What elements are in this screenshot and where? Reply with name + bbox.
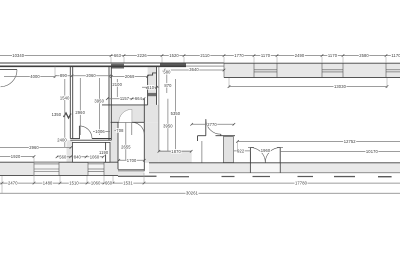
- dim 13030 line: [229, 86, 387, 88]
- svg-text:560: 560: [59, 154, 67, 159]
- svg-text:1870: 1870: [171, 149, 181, 154]
- svg-text:2490: 2490: [295, 53, 305, 58]
- svg-text:2770: 2770: [207, 122, 217, 127]
- dim text 10340: [12, 53, 25, 57]
- dim 3950 text room2: [94, 99, 105, 103]
- bottom dimension chain: [0, 182, 400, 184]
- bottom-right band bottom edge: [149, 172, 400, 174]
- top-right band bottom edge: [224, 77, 400, 79]
- shaft right wall line b: [158, 66, 160, 151]
- gray area right of shaft above band: [159, 150, 192, 163]
- dim 708: [115, 129, 119, 131]
- svg-text:10340: 10340: [12, 53, 25, 58]
- exterior step dash 1: [118, 176, 157, 177]
- dim 2960 text room2: [79, 78, 81, 135]
- double door opening in band: [251, 163, 280, 172]
- svg-text:1520: 1520: [169, 53, 179, 58]
- shaft gray column: [148, 66, 157, 105]
- dim 4000 line: [4, 76, 55, 78]
- lower room door swing sector upper: [119, 109, 132, 122]
- dark pier in shaft: [148, 93, 157, 96]
- svg-text:1060: 1060: [90, 154, 100, 159]
- dim 2960 lower: [0, 147, 71, 149]
- svg-text:12752: 12752: [344, 139, 357, 144]
- svg-text:1170: 1170: [328, 53, 338, 58]
- bottom-right band top edge: [149, 162, 400, 164]
- window glazing lines 254-277: [254, 69, 277, 71]
- vestibule door open leaf stub: [220, 134, 222, 136]
- dim text 663: [114, 53, 122, 57]
- dim 2655 text: [121, 145, 132, 149]
- double door right swing arc: [265, 148, 280, 163]
- bottom-right exterior wall band fill: [149, 163, 400, 173]
- dim 3640 line: [164, 69, 224, 71]
- exterior step dash 2: [170, 176, 189, 177]
- dim 2655 vertical line: [125, 122, 127, 160]
- wall between room2 and middle room line b: [110, 66, 112, 140]
- dim 2069 line: [111, 75, 147, 77]
- top chain tick marks: [110, 54, 388, 57]
- svg-text:2400: 2400: [57, 137, 67, 142]
- svg-text:660: 660: [105, 181, 113, 186]
- dim text 1170c: [391, 53, 400, 57]
- wall right of middle room: [143, 99, 145, 123]
- svg-text:2110: 2110: [200, 53, 210, 58]
- svg-text:3640: 3640: [189, 67, 199, 72]
- dim text 2226: [137, 53, 148, 57]
- band window divider x386: [385, 63, 387, 77]
- chimney pilaster on top wall: [111, 64, 124, 69]
- svg-text:664: 664: [135, 96, 143, 101]
- band window divider x277: [276, 63, 278, 77]
- middle room bottom wall: [102, 104, 148, 106]
- gray strip right of lower middle room: [145, 122, 159, 163]
- dim 922: [234, 150, 251, 152]
- svg-text:17780: 17780: [295, 181, 308, 186]
- svg-text:1700: 1700: [127, 158, 137, 163]
- svg-text:1170: 1170: [391, 53, 400, 58]
- svg-text:1350: 1350: [52, 112, 62, 117]
- vestibule door swing arc: [206, 119, 221, 134]
- svg-text:2580: 2580: [359, 53, 369, 58]
- vestibule wall horizontal left: [198, 135, 206, 137]
- vestibule pier fill: [223, 137, 233, 163]
- svg-text:2100: 2100: [112, 82, 122, 87]
- dim 1540 vertical: [64, 79, 66, 147]
- lower room door swing arc lower: [132, 122, 145, 135]
- dim 2060 line: [72, 75, 110, 77]
- svg-text:2060: 2060: [86, 73, 96, 78]
- exterior step dash 5: [298, 176, 314, 177]
- svg-text:1060: 1060: [91, 181, 101, 186]
- dim text 2580: [359, 53, 370, 57]
- vestibule door jamb wall: [205, 119, 207, 136]
- double door left leaf: [249, 148, 251, 173]
- dim 5350 vertical: [174, 79, 176, 151]
- double door top stub right: [277, 146, 283, 148]
- entry white rect: [73, 142, 111, 162]
- svg-text:663: 663: [114, 53, 122, 58]
- dim 1157 664 line: [107, 98, 144, 100]
- svg-text:2960: 2960: [75, 110, 85, 115]
- svg-text:2960: 2960: [29, 145, 39, 150]
- dim text 1170b: [327, 53, 338, 57]
- top chain extension lines: [111, 57, 386, 63]
- wall between room1 and room2 line a: [69, 66, 71, 138]
- svg-text:1920: 1920: [11, 154, 21, 159]
- dim 3950 vertical line room2: [98, 78, 100, 135]
- exterior step dash 4: [253, 176, 271, 177]
- lower middle room top wall: [111, 121, 145, 123]
- entrance door leaf top-left: [0, 69, 17, 71]
- top-right band top edge: [224, 62, 400, 64]
- vestibule wall vertical stub: [197, 136, 199, 141]
- svg-text:870: 870: [164, 83, 172, 88]
- room2 door leaf: [78, 126, 80, 139]
- dim 2770 vestibule: [192, 123, 234, 125]
- vestibule side wall to band: [201, 141, 203, 163]
- svg-text:2470: 2470: [8, 181, 18, 186]
- top wall opening inner thin line: [186, 65, 224, 67]
- room2 bottom wall lower line: [70, 139, 111, 141]
- lower middle room bottom wall upper line: [118, 169, 144, 171]
- dim text 1520: [169, 53, 180, 57]
- window glazing lines 386-400: [386, 69, 400, 71]
- dim 1006: [93, 131, 110, 133]
- dim text 2110: [200, 53, 211, 57]
- svg-text:890: 890: [60, 73, 68, 78]
- window glazing lines 322-343: [322, 69, 343, 71]
- exterior step dash 3: [222, 176, 235, 177]
- svg-text:10170: 10170: [366, 149, 379, 154]
- svg-text:30261: 30261: [186, 191, 199, 196]
- wall between room2 and middle room line a: [108, 66, 110, 140]
- double door right leaf: [279, 148, 281, 173]
- svg-text:3950: 3950: [94, 99, 104, 104]
- dim 1190 text: [99, 150, 110, 154]
- dim 1350 text: [51, 112, 62, 116]
- dim 12752: [238, 140, 400, 142]
- dim 2400 text: [57, 138, 68, 142]
- exterior step dash 7: [378, 176, 392, 177]
- dim 890 line: [55, 75, 72, 77]
- band window divider x343: [342, 63, 344, 77]
- lower room door leaf: [131, 109, 133, 135]
- gray strip below lower room: [118, 171, 144, 175]
- dim 610: [142, 86, 159, 88]
- svg-text:610: 610: [147, 85, 155, 90]
- entry rect inner divider: [105, 142, 107, 162]
- dim 870 vertical: [166, 75, 168, 94]
- svg-text:1480: 1480: [43, 181, 53, 186]
- dim text 2490: [294, 53, 305, 57]
- top exterior wall outer line: [0, 62, 224, 64]
- wall between room1 and room2 line b: [72, 66, 74, 138]
- entrance door swing arc: [1, 70, 17, 87]
- middle upper room right wall: [147, 75, 149, 105]
- svg-text:1157: 1157: [120, 96, 130, 101]
- double door left swing arc: [250, 148, 265, 163]
- band window divider x224: [223, 63, 225, 77]
- lower middle room right wall: [143, 122, 145, 171]
- svg-text:1006: 1006: [95, 129, 105, 134]
- svg-text:1190: 1190: [99, 150, 109, 155]
- room2 door swing arc: [79, 126, 92, 139]
- lower middle room left wall: [117, 122, 119, 169]
- gray strip left of lower middle room: [111, 122, 119, 162]
- lower middle room bottom wall lower line: [118, 170, 144, 172]
- double door top stub left: [248, 146, 254, 148]
- top dimension chain line: [0, 55, 400, 57]
- svg-text:708: 708: [116, 128, 124, 133]
- dim 2100 vertical: [116, 79, 118, 97]
- dim 3950 vertical right: [167, 99, 169, 152]
- bottom-left exterior wall band fill: [0, 162, 118, 175]
- dim text 1170: [260, 53, 271, 57]
- svg-text:1170: 1170: [261, 53, 271, 58]
- section hatch symbol on wall: [64, 113, 72, 118]
- bottom-left window 1: [34, 162, 59, 175]
- svg-text:580: 580: [163, 69, 171, 74]
- exterior step dash 6: [334, 176, 355, 177]
- svg-text:2655: 2655: [121, 145, 131, 150]
- gray wall mass above entry rect: [67, 140, 73, 162]
- svg-text:5350: 5350: [171, 111, 181, 116]
- top exterior wall inner line: [0, 65, 186, 67]
- svg-text:1531: 1531: [123, 181, 133, 186]
- dim 10170: [280, 151, 400, 153]
- shaft right wall line a: [156, 66, 158, 105]
- bottom-left window 2: [88, 162, 104, 175]
- svg-text:13030: 13030: [334, 84, 347, 89]
- svg-text:1960: 1960: [261, 148, 271, 153]
- band window divider x254: [253, 63, 255, 77]
- svg-text:4000: 4000: [30, 74, 40, 79]
- dim 30261 full width: [0, 192, 400, 194]
- svg-text:1770: 1770: [234, 53, 244, 58]
- dim 1920: [0, 156, 34, 158]
- wall jog step: [148, 73, 157, 75]
- band window divider x322: [321, 63, 323, 77]
- room2 bottom wall upper line with door opening: [70, 138, 80, 140]
- svg-text:840: 840: [74, 154, 82, 159]
- dim 1700: [119, 159, 145, 161]
- svg-text:2069: 2069: [125, 74, 135, 79]
- svg-text:1510: 1510: [69, 181, 79, 186]
- bottom-left band top edge: [0, 161, 118, 163]
- top wall dark core segment: [160, 63, 186, 66]
- dim 1870: [159, 150, 191, 152]
- dim 580 text: [163, 70, 171, 74]
- vestibule wall horizontal right: [216, 135, 236, 137]
- vestibule pier outline: [223, 137, 233, 163]
- svg-text:922: 922: [237, 148, 245, 153]
- entry dim 560 840 1060: [57, 156, 103, 158]
- top-right exterior wall band fill: [224, 63, 400, 77]
- svg-text:2226: 2226: [137, 53, 147, 58]
- bottom-left band bottom edge: [0, 174, 118, 176]
- svg-text:1540: 1540: [60, 95, 70, 100]
- dim text 1770: [234, 53, 245, 57]
- svg-text:3950: 3950: [163, 124, 173, 129]
- gray zone between middle rooms: [111, 105, 159, 122]
- dim 1960 text: [260, 149, 271, 153]
